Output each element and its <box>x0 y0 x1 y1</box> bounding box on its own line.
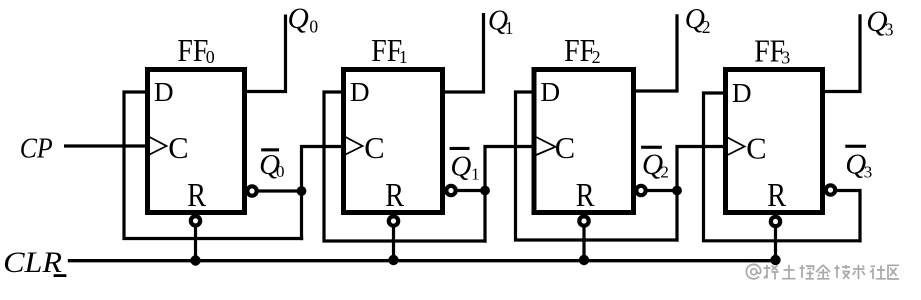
svg-text:C: C <box>555 131 575 165</box>
junction node CLR-R2 <box>579 255 589 265</box>
bubble R3 input <box>771 217 780 226</box>
svg-text:D: D <box>540 77 560 107</box>
wire D3 feedback loop <box>704 93 862 241</box>
svg-text:1: 1 <box>399 47 408 67</box>
clock edge triangle (FF1) <box>346 137 363 155</box>
wire Q1bar to C2 riser <box>485 147 536 243</box>
svg-text:Q: Q <box>450 151 471 183</box>
svg-text:3: 3 <box>781 48 790 68</box>
bubble R0 input <box>191 216 200 225</box>
wire Q2bar stub <box>643 189 677 192</box>
svg-text:C: C <box>746 132 766 166</box>
svg-text:2: 2 <box>660 163 669 182</box>
wire Q2bar to C3 riser <box>677 147 728 242</box>
svg-text:CLR: CLR <box>3 247 62 279</box>
flip-flop FF0 box <box>148 70 245 213</box>
wire D0 feedback loop <box>124 92 303 239</box>
label FF0 <box>177 33 214 68</box>
svg-text:C: C <box>364 131 384 165</box>
pin label C (FF0) <box>168 131 188 165</box>
wire Q3bar vertical <box>836 191 860 243</box>
wire Q0bar to C1 riser <box>302 147 346 241</box>
wire R3 drop <box>774 214 777 260</box>
pin label D (FF0) <box>154 77 174 107</box>
pin label D (FF3) <box>732 78 752 108</box>
wire Q0 output <box>243 15 286 92</box>
svg-text:FF: FF <box>564 33 595 68</box>
label FF1 <box>371 33 407 68</box>
wire Q1bar stub <box>453 189 485 192</box>
label Q0bar <box>259 148 284 181</box>
label Q1 <box>488 5 514 38</box>
bubble Q1bar output <box>446 186 455 195</box>
wire CP input <box>64 144 150 147</box>
svg-text:2: 2 <box>592 47 601 67</box>
svg-text:FF: FF <box>371 33 402 68</box>
svg-text:R: R <box>385 177 404 214</box>
flip-flop FF3 box <box>726 70 823 213</box>
pin label C (FF1) <box>364 131 384 165</box>
wire R0 drop <box>194 214 197 261</box>
svg-text:0: 0 <box>206 47 215 67</box>
wire Q1 output <box>441 13 484 92</box>
svg-text:D: D <box>350 77 370 107</box>
clock edge triangle (FF3) <box>728 138 745 156</box>
svg-text:R: R <box>187 177 206 214</box>
wire R2 drop <box>582 214 585 260</box>
bubble Q2bar output <box>636 186 645 195</box>
svg-text:Q: Q <box>288 3 309 35</box>
bubble Q0bar output <box>247 186 256 195</box>
pin label R (FF2) <box>576 177 595 214</box>
svg-text:D: D <box>732 78 752 108</box>
bubble R2 input <box>579 216 588 225</box>
svg-text:1: 1 <box>505 18 514 38</box>
clock edge triangle (FF2) <box>536 137 556 155</box>
pin label C (FF2) <box>555 131 575 165</box>
label Q0 <box>288 3 319 36</box>
label Q3 <box>866 6 894 39</box>
pin label R (FF1) <box>385 177 404 214</box>
svg-text:1: 1 <box>471 165 480 184</box>
label Q1bar <box>450 147 480 184</box>
svg-text:2: 2 <box>702 17 711 37</box>
svg-text:0: 0 <box>276 162 285 181</box>
junction node Q2bar <box>672 186 682 196</box>
wire R1 drop <box>392 214 395 260</box>
svg-text:3: 3 <box>864 163 873 182</box>
wire Q2 output <box>632 14 677 91</box>
flip-flop FF1 box <box>344 70 443 213</box>
flip-flop FF2 box <box>534 70 634 213</box>
junction node Q0bar <box>297 186 307 196</box>
label Q3bar <box>845 145 872 182</box>
wire CLR bus <box>68 259 778 262</box>
pin label D (FF2) <box>540 77 560 107</box>
svg-text:R: R <box>576 177 595 214</box>
svg-text:D: D <box>154 77 174 107</box>
junction node CLR-R1 <box>388 255 398 265</box>
clock edge triangle (FF0) <box>150 137 167 155</box>
pin label D (FF1) <box>350 77 370 107</box>
label FF2 <box>564 33 601 68</box>
wire Q3 output <box>821 14 860 91</box>
pin label R (FF0) <box>187 177 206 214</box>
label FF3 <box>754 34 790 69</box>
svg-text:R: R <box>767 177 786 214</box>
label CP <box>20 132 53 164</box>
label CLR <box>3 247 66 279</box>
watermark <box>746 264 899 279</box>
pin label R (FF3) <box>767 177 786 214</box>
wire D1 feedback loop <box>324 92 487 241</box>
wire D2 feedback loop <box>516 92 679 240</box>
svg-text:C: C <box>168 131 188 165</box>
label Q2 <box>685 4 711 37</box>
junction node Q1bar <box>480 186 490 196</box>
junction node CLR-R0 <box>190 255 200 265</box>
wire Q0bar stub <box>254 189 302 192</box>
junction node CLR-R3 <box>770 255 780 265</box>
label Q2bar <box>641 146 669 182</box>
pin label C (FF3) <box>746 132 766 166</box>
bubble Q3bar output <box>826 185 835 194</box>
svg-text:0: 0 <box>309 16 318 36</box>
svg-text:CP: CP <box>20 132 53 164</box>
svg-text:3: 3 <box>885 19 894 39</box>
bubble R1 input <box>389 216 398 225</box>
svg-text:FF: FF <box>177 33 208 68</box>
